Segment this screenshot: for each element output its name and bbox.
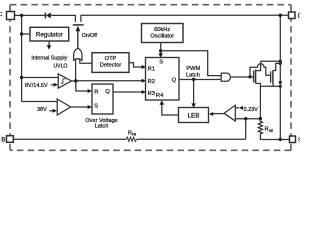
svg-text:UVLO: UVLO xyxy=(54,64,68,70)
bottom rail from FB pin xyxy=(13,138,246,140)
AND output xyxy=(231,76,253,78)
0.23V reference xyxy=(235,107,239,109)
node J10 xyxy=(279,85,282,88)
svg-text:B: B xyxy=(1,137,5,143)
OTP detector box U6 xyxy=(92,53,129,73)
AND gate U9 xyxy=(221,73,230,81)
rail to right vertical xyxy=(261,60,281,62)
regulator box xyxy=(30,27,69,41)
comparator U4 38V OVP xyxy=(57,99,70,115)
gate drive line with hop xyxy=(250,64,270,77)
svg-text:FB: FB xyxy=(132,133,137,137)
svg-text:R4: R4 xyxy=(156,93,164,99)
pin FB xyxy=(7,136,14,143)
node J11 xyxy=(244,117,247,120)
resistor RFB xyxy=(126,137,136,141)
svg-text:R3: R3 xyxy=(148,91,155,97)
wire VCC bus vertical xyxy=(21,15,23,101)
OCP bottom input sense line xyxy=(235,118,260,120)
over voltage latch U5 xyxy=(92,84,113,114)
svg-text:Latch: Latch xyxy=(95,123,109,129)
svg-text:S: S xyxy=(94,104,98,110)
oscillator box U7 xyxy=(142,24,184,43)
gate arrow of Q1 xyxy=(77,31,79,48)
IC dashed border xyxy=(10,5,291,151)
svg-text:Regulator: Regulator xyxy=(36,32,63,39)
UVLO output to R2 xyxy=(71,80,142,82)
svg-text:0.23V: 0.23V xyxy=(244,107,259,113)
wire bus to UVLO top input xyxy=(22,77,59,79)
right vertical from D/ST pin xyxy=(279,15,281,139)
node J7 xyxy=(248,75,251,78)
svg-text:60kHz: 60kHz xyxy=(154,27,170,33)
wire sense node to bottom rail xyxy=(245,119,247,140)
comparator U3 UVLO xyxy=(58,74,71,88)
Q3 drain xyxy=(273,63,280,70)
wire bus to regulator xyxy=(22,33,30,35)
Q2 source down to sense node xyxy=(256,83,261,118)
source rail xyxy=(260,85,280,87)
node J12 xyxy=(259,117,262,120)
svg-text:Detector: Detector xyxy=(100,63,122,69)
OTP output to R1 xyxy=(129,63,142,67)
node at top pin wire xyxy=(279,14,282,17)
node J6 xyxy=(192,78,195,81)
pin D/ST top right xyxy=(289,12,296,19)
pin S bottom right xyxy=(290,136,296,143)
node J8 xyxy=(279,60,282,63)
38V comp output to OV latch S xyxy=(71,106,89,108)
node J3 xyxy=(20,76,23,79)
svg-text:Q: Q xyxy=(105,89,110,95)
diode D1 xyxy=(44,13,46,19)
wire top rail to D/ST pin xyxy=(81,14,289,16)
Q2 drain xyxy=(256,61,261,70)
resistor RSE vertical xyxy=(258,119,289,140)
wire bus to 38V comp top input xyxy=(22,101,58,103)
svg-text:S: S xyxy=(159,60,163,66)
wire UVLO to OV latch R xyxy=(76,81,88,91)
OV latch Q to R3 xyxy=(113,91,142,93)
node J2 xyxy=(20,32,23,35)
svg-text:R2: R2 xyxy=(148,79,155,85)
svg-text:Internal Supply: Internal Supply xyxy=(31,56,67,62)
comparator U10 OCP xyxy=(224,105,235,121)
node J9 xyxy=(279,62,282,65)
LEB box U11 xyxy=(179,108,209,123)
node at bottom rail xyxy=(279,138,282,141)
svg-text:D: D xyxy=(298,14,300,20)
node J1 xyxy=(20,14,23,17)
svg-text:SE: SE xyxy=(269,129,274,133)
wire VCC pin to diode xyxy=(15,14,46,16)
osc output to S xyxy=(160,43,162,54)
Q3 source xyxy=(272,84,274,87)
svg-text:Latch: Latch xyxy=(186,72,200,78)
OR inputs xyxy=(75,59,77,81)
svg-text:S: S xyxy=(298,138,300,144)
transistor Q3 power MOSFET xyxy=(270,71,272,82)
OR gate U2 xyxy=(74,48,82,60)
osc branch to AND gate xyxy=(161,51,222,76)
OCP output to LEB xyxy=(213,113,224,115)
svg-text:Q: Q xyxy=(172,78,177,84)
LEB to R4 xyxy=(162,105,179,115)
svg-text:LEB: LEB xyxy=(187,113,199,120)
OR output xyxy=(77,31,79,48)
svg-text:R1: R1 xyxy=(148,66,155,72)
pin VCC xyxy=(7,12,15,20)
transistor Q1 startup On/Off switch xyxy=(80,15,82,22)
arrow internal supply xyxy=(48,41,50,46)
svg-text:38V: 38V xyxy=(37,107,47,113)
PWM latch box U8 xyxy=(146,58,180,101)
svg-text:VCC: VCC xyxy=(0,12,2,18)
svg-text:Oscillator: Oscillator xyxy=(150,33,174,39)
node J4 xyxy=(74,79,77,82)
svg-text:8V/14.5V: 8V/14.5V xyxy=(25,83,48,89)
svg-text:OTP: OTP xyxy=(105,56,117,62)
Q output to AND xyxy=(179,79,221,81)
svg-text:On/Off: On/Off xyxy=(82,33,98,39)
wire diode to startup FET xyxy=(51,15,76,22)
svg-text:R: R xyxy=(94,89,98,95)
wire Q to LEB xyxy=(193,80,195,104)
arrowhead into R2 xyxy=(142,79,146,83)
svg-text:PWM: PWM xyxy=(186,66,200,72)
transistor Q2 driver xyxy=(253,71,255,83)
